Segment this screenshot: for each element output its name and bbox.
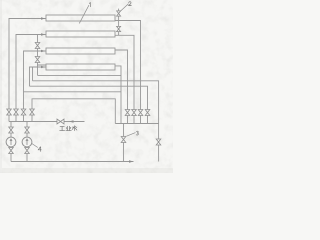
- wire E2 outlet right: [115, 35, 134, 123]
- wire feed E1: [9, 19, 46, 122]
- heat exchanger E3: [46, 48, 115, 54]
- wire between top valves: [118, 21, 120, 36]
- wire bus B2: [33, 81, 159, 124]
- pump P1: [6, 137, 16, 147]
- arrow bottom drain flow: [129, 160, 134, 163]
- label 1: [89, 3, 90, 7]
- wire bus B4: [24, 91, 122, 93]
- heat exchanger E2: [46, 31, 115, 37]
- valve bypass V-d: [35, 57, 40, 63]
- heat exchanger E1: [46, 15, 115, 21]
- arrow into E3: [41, 50, 45, 52]
- leader label 2: [120, 4, 128, 12]
- label 4: [38, 147, 41, 152]
- arrow into E4: [41, 66, 45, 68]
- valve right row 2: [132, 110, 137, 116]
- label industrial water: char GONG: [60, 126, 65, 130]
- wire return header: [115, 123, 158, 125]
- wire pump branch 2: [26, 122, 28, 162]
- leader label 4: [32, 144, 38, 148]
- wire right drop: [158, 124, 160, 162]
- arrow into E1: [41, 17, 45, 19]
- label 2: [129, 2, 132, 6]
- valve right drop: [156, 139, 161, 145]
- wire bypass stack: [38, 35, 47, 66]
- valve left row 3: [21, 109, 26, 115]
- valve top right V-b: [117, 26, 121, 31]
- valve pump2 lower: [25, 148, 30, 154]
- valve pump1 lower: [9, 148, 14, 154]
- wire bus B3: [30, 86, 148, 123]
- arrow into E2: [41, 33, 45, 35]
- valve industrial water inlet: [57, 119, 64, 124]
- wire bus B1: [38, 74, 122, 76]
- wire riser E4 feed to bus B2: [32, 67, 34, 81]
- wire industrial water header: [9, 121, 85, 123]
- wire feed E3: [24, 51, 47, 122]
- wire bypass down to bus B1: [37, 65, 39, 75]
- label 3: [136, 131, 138, 135]
- wire bus B5: [32, 99, 115, 124]
- valve right row 3: [138, 110, 143, 116]
- leader label 1: [79, 5, 89, 23]
- wire E1 outlet right: [115, 21, 141, 124]
- leader label 3: [127, 133, 136, 137]
- wire E4 outlet right: [115, 66, 121, 124]
- wire vent top: [118, 9, 120, 21]
- valve right row 1: [125, 110, 130, 116]
- label industrial water: char YE: [66, 126, 71, 130]
- label industrial water: char SHUI: [72, 126, 77, 131]
- paper background: [0, 0, 173, 173]
- valve right row 4: [145, 110, 150, 116]
- wire drain drop: [123, 124, 125, 162]
- valve bypass V-c: [35, 43, 40, 49]
- arrow industrial water flow: [69, 120, 74, 123]
- pump P2: [22, 137, 32, 147]
- valve drain V3: [121, 137, 126, 143]
- wire pump branch 1: [10, 122, 12, 162]
- wire bottom drain line: [11, 161, 134, 163]
- wire feed E2: [16, 35, 46, 122]
- valve left row 4: [30, 109, 35, 115]
- valve left row 2: [14, 109, 19, 115]
- paper grain overlay: [0, 0, 173, 173]
- wire E3 outlet right: [115, 50, 128, 124]
- heat exchanger E4: [46, 64, 115, 70]
- valve pump1 upper: [9, 127, 14, 133]
- valve top right V-a: [117, 11, 121, 16]
- wire feed E4: [30, 67, 47, 86]
- valve left row 1: [7, 109, 12, 115]
- valve pump2 upper: [25, 127, 30, 133]
